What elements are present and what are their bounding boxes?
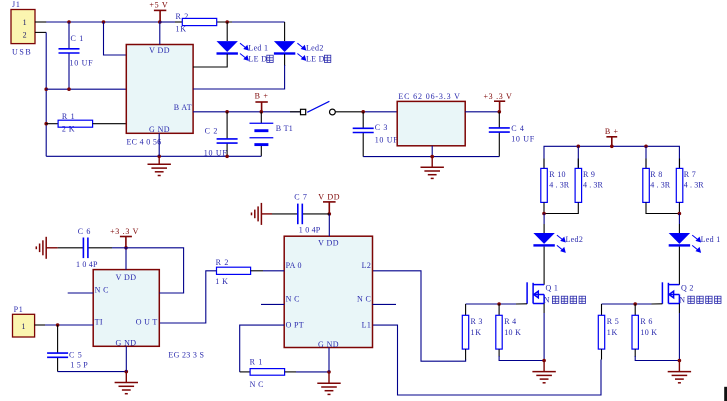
svg-text:1 0 4P: 1 0 4P bbox=[299, 225, 321, 234]
wire J1 pin2 vertical rail bbox=[45, 32, 47, 156]
junction R9 drop bbox=[577, 145, 581, 149]
wire U1 GND pin bbox=[158, 133, 160, 156]
svg-text:LE D: LE D bbox=[306, 54, 325, 63]
op IC U1 EC4056 charger bbox=[126, 45, 193, 134]
junction B+ stem bbox=[610, 145, 614, 149]
junction C2 bottom bbox=[225, 155, 229, 159]
ground left of C7 bbox=[252, 203, 262, 225]
svg-text:1 5 P: 1 5 P bbox=[70, 361, 88, 370]
capacitor C7 104P bbox=[272, 213, 298, 215]
LED Led2 top bbox=[284, 22, 286, 41]
capacitor C5 15P bbox=[57, 325, 59, 353]
battery BT1 bbox=[260, 112, 262, 124]
svg-text:C 4: C 4 bbox=[511, 124, 524, 133]
junction +5V stem bbox=[158, 20, 162, 24]
junction Q2 source node bbox=[678, 359, 682, 363]
wire R6 bottom to Q2 source node bbox=[634, 349, 636, 357]
power +3.3V above U4 bbox=[120, 237, 132, 248]
junction R10 R9 node bbox=[542, 212, 546, 216]
svg-text:J1: J1 bbox=[12, 0, 21, 9]
op IC U4 EG233S bbox=[93, 270, 159, 347]
svg-text:V DD: V DD bbox=[149, 46, 170, 55]
svg-text:R 9: R 9 bbox=[583, 170, 595, 179]
junction R8 drop bbox=[644, 145, 648, 149]
ground under U1 bbox=[158, 156, 160, 164]
page corner mark bbox=[724, 387, 727, 401]
label Q1 chinese bbox=[552, 296, 585, 303]
transistor Q2 N-channel MOSFET bbox=[662, 282, 679, 304]
svg-text:Q 1: Q 1 bbox=[546, 283, 559, 292]
svg-text:R 3: R 3 bbox=[471, 317, 483, 326]
wire Led2 to Q1 drain bbox=[543, 247, 545, 285]
regulator U2 EC6206-3.3V bbox=[397, 101, 465, 145]
svg-text:N C: N C bbox=[286, 295, 300, 304]
wire Led2 cathode to U1 bbox=[284, 54, 286, 66]
svg-text:O PT: O PT bbox=[286, 320, 304, 329]
LED Led1 right bbox=[678, 214, 680, 225]
svg-text:V DD: V DD bbox=[116, 273, 137, 282]
LED Led2 right bbox=[543, 214, 545, 225]
svg-text:N C: N C bbox=[250, 380, 264, 389]
wire R10/R9 join bbox=[543, 202, 545, 213]
capacitor C3 bbox=[362, 112, 364, 129]
wire P1 to U4 TI bbox=[45, 324, 93, 326]
junction +3.3V C4 bbox=[498, 110, 502, 114]
capacitor C4 bbox=[498, 112, 500, 128]
power +5V bbox=[154, 10, 166, 22]
wire U4 VDD pin bbox=[125, 248, 127, 270]
junction VDD C7 bbox=[328, 212, 332, 216]
ground under U4 bbox=[125, 372, 127, 383]
svg-text:R 6: R 6 bbox=[640, 317, 652, 326]
wire R4 bottom to Q1 source node bbox=[498, 349, 500, 357]
resistor R7 4.3R bbox=[676, 168, 683, 202]
svg-text:N: N bbox=[544, 296, 550, 305]
junction TI C5 bbox=[56, 323, 60, 327]
power +3.3V right bbox=[494, 101, 505, 112]
ground under Q1 bbox=[543, 361, 545, 372]
svg-text:PA 0: PA 0 bbox=[286, 261, 302, 270]
ground rail right of U2 bbox=[363, 156, 499, 158]
svg-text:+3 .3 V: +3 .3 V bbox=[483, 92, 512, 101]
svg-text:10 K: 10 K bbox=[640, 328, 657, 337]
svg-text:2 K: 2 K bbox=[62, 124, 75, 133]
junction pin2/R1 bbox=[44, 122, 48, 126]
wire switch to U2 input bbox=[335, 111, 363, 113]
wire R9 drop bbox=[577, 146, 579, 168]
svg-text:USB: USB bbox=[12, 48, 32, 57]
svg-text:+5 V: +5 V bbox=[149, 1, 168, 10]
junction B+ battery node bbox=[260, 110, 264, 114]
svg-text:+3 .3 V: +3 .3 V bbox=[110, 227, 139, 236]
resistor R8 4.3R bbox=[643, 168, 650, 202]
wire Q1 source to ground bbox=[543, 304, 545, 314]
junction LED1 anode branch bbox=[225, 20, 229, 24]
wire C5 ground rail bbox=[58, 371, 127, 373]
svg-text:10 UF: 10 UF bbox=[375, 135, 399, 144]
svg-text:R 8: R 8 bbox=[650, 170, 662, 179]
svg-text:L2: L2 bbox=[362, 261, 372, 270]
op IC U3 controller bbox=[284, 236, 372, 347]
wire +5V net from J1 pin1 across top bbox=[35, 21, 182, 23]
junction U3 GND R1 bbox=[327, 370, 331, 374]
svg-text:R 5: R 5 bbox=[607, 317, 619, 326]
svg-text:10 K: 10 K bbox=[504, 328, 521, 337]
wire R5 bottom to L1 rail bbox=[601, 349, 603, 359]
svg-text:4 . 3R: 4 . 3R bbox=[650, 180, 670, 189]
wire U4 NC stub bbox=[68, 292, 94, 294]
ground under U2 bbox=[431, 157, 433, 168]
connector P1 bbox=[13, 314, 35, 337]
svg-text:1: 1 bbox=[23, 18, 28, 27]
svg-text:O U T: O U T bbox=[136, 318, 158, 327]
wire R7/R8 join bbox=[678, 202, 680, 213]
ground rail left bbox=[46, 155, 261, 157]
wire U3 NC right stub bbox=[373, 303, 397, 305]
wire R3 bottom to L2 riser bbox=[465, 349, 467, 360]
svg-text:1 K: 1 K bbox=[215, 277, 228, 286]
wire to U1 middle-left pin bbox=[46, 88, 126, 90]
capacitor C1 bbox=[68, 22, 70, 49]
svg-text:LE D: LE D bbox=[248, 54, 267, 63]
svg-text:R 1: R 1 bbox=[250, 358, 263, 367]
resistor R9 4.3R bbox=[575, 168, 582, 202]
resistor R10 4.3R bbox=[541, 168, 548, 202]
svg-text:4 . 3R: 4 . 3R bbox=[684, 180, 704, 189]
svg-text:1 0 4P: 1 0 4P bbox=[76, 260, 98, 269]
svg-text:EC 62 06-3.3 V: EC 62 06-3.3 V bbox=[398, 92, 460, 101]
junction U2 GND bbox=[430, 155, 434, 159]
svg-text:C 1: C 1 bbox=[71, 34, 84, 43]
svg-text:Led2: Led2 bbox=[566, 235, 584, 244]
switch S1 bbox=[290, 111, 301, 113]
resistor R4 10K bbox=[498, 304, 500, 315]
svg-text:TI: TI bbox=[95, 318, 103, 327]
svg-text:B T1: B T1 bbox=[276, 124, 293, 133]
wire U3 GND pin bbox=[328, 348, 330, 372]
svg-text:C 5: C 5 bbox=[69, 351, 82, 360]
svg-text:Q 2: Q 2 bbox=[681, 283, 694, 292]
wire Q2 source to ground bbox=[678, 304, 680, 314]
wire U2 output bbox=[465, 111, 499, 113]
svg-text:V DD: V DD bbox=[318, 238, 339, 247]
label Q2 chinese bbox=[688, 296, 721, 303]
junction C3 top bbox=[361, 110, 365, 114]
junction +3.3V C6 VDD bbox=[124, 246, 128, 250]
junction C1 bottom bbox=[67, 87, 71, 91]
svg-text:1K: 1K bbox=[471, 328, 482, 337]
svg-text:EG 23 3 S: EG 23 3 S bbox=[168, 351, 204, 360]
svg-text:R 10: R 10 bbox=[549, 170, 566, 179]
ground under Q2 bbox=[678, 361, 680, 372]
svg-text:C 3: C 3 bbox=[375, 123, 388, 132]
ground under U3 bbox=[328, 372, 330, 383]
power B+ node left bbox=[255, 102, 267, 112]
wire U2 GND pin bbox=[431, 146, 433, 157]
svg-text:P1: P1 bbox=[14, 305, 24, 314]
svg-text:C 2: C 2 bbox=[205, 126, 218, 135]
svg-text:4 . 3R: 4 . 3R bbox=[583, 180, 603, 189]
svg-text:L1: L1 bbox=[362, 320, 372, 329]
resistor R5 1K bbox=[601, 304, 603, 315]
wire VDD branch to U1 pin bbox=[104, 22, 127, 55]
svg-text:C 6: C 6 bbox=[78, 227, 91, 236]
wire B+ rail to resistor bank bbox=[544, 146, 679, 168]
svg-text:R 2: R 2 bbox=[216, 258, 229, 267]
svg-text:V DD: V DD bbox=[318, 192, 340, 201]
svg-text:C 7: C 7 bbox=[294, 193, 307, 202]
svg-text:G ND: G ND bbox=[149, 125, 170, 134]
wire U3 VDD pin bbox=[328, 214, 330, 236]
transistor Q1 N-channel MOSFET bbox=[527, 282, 544, 304]
LED Led1 bbox=[226, 22, 228, 41]
junction C2 top bbox=[225, 110, 229, 114]
wire R2 left to U4 OUT riser bbox=[159, 271, 216, 323]
junction U1 GND bbox=[157, 155, 161, 159]
resistor R3 1K bbox=[465, 304, 467, 315]
wire U3 NC left stub bbox=[261, 303, 284, 305]
junction pin2/C1 wire bbox=[44, 87, 48, 91]
svg-text:N C: N C bbox=[357, 295, 371, 304]
svg-text:B AT: B AT bbox=[174, 103, 192, 112]
svg-text:Led2: Led2 bbox=[306, 43, 324, 52]
wire Q1 gate bbox=[466, 303, 516, 305]
capacitor C2 bbox=[226, 112, 228, 139]
junction Q1 source node bbox=[542, 359, 546, 363]
svg-text:Led 1: Led 1 bbox=[248, 43, 268, 52]
power B+ node right bbox=[606, 137, 617, 147]
junction R7 R8 node bbox=[678, 212, 682, 216]
junction U4 GND bbox=[125, 370, 129, 374]
svg-text:R 7: R 7 bbox=[684, 170, 696, 179]
wire R8 drop bbox=[645, 146, 647, 168]
junction R4 top bbox=[497, 302, 501, 306]
svg-text:Led 1: Led 1 bbox=[701, 235, 721, 244]
U1 VDD pin wire bbox=[159, 22, 161, 45]
wire Q2 gate bbox=[602, 303, 652, 305]
wire U4 GND pin bbox=[125, 346, 127, 371]
switch blade bbox=[307, 101, 329, 112]
connector J1 USB bbox=[11, 10, 35, 44]
junction C1 top bbox=[67, 20, 71, 24]
ground left of C6 bbox=[36, 237, 46, 259]
svg-text:B +: B + bbox=[255, 92, 269, 101]
wire VDD loop to U4 right pin bbox=[126, 248, 184, 293]
resistor R6 10K bbox=[634, 304, 636, 315]
wire U3 OPT to R1 bbox=[240, 325, 285, 372]
svg-text:R 4: R 4 bbox=[504, 317, 516, 326]
svg-text:N C: N C bbox=[95, 285, 109, 294]
wire Led1 to Q2 drain bbox=[678, 247, 680, 285]
junction VDD branch bbox=[102, 20, 106, 24]
power VDD above U3 bbox=[323, 202, 336, 214]
junction R6 top bbox=[633, 302, 637, 306]
svg-text:2: 2 bbox=[23, 30, 28, 39]
svg-text:1: 1 bbox=[21, 322, 26, 331]
svg-text:4 . 3R: 4 . 3R bbox=[549, 180, 569, 189]
wire Led1 cathode to U1 bbox=[193, 54, 227, 67]
capacitor C6 104P bbox=[58, 247, 84, 249]
svg-text:B +: B + bbox=[605, 127, 619, 136]
svg-text:10 UF: 10 UF bbox=[70, 58, 94, 67]
svg-text:N: N bbox=[679, 296, 685, 305]
svg-text:10 UF: 10 UF bbox=[511, 134, 535, 143]
wire U1 BAT to switch bbox=[193, 111, 300, 113]
svg-text:EC 4 0 56: EC 4 0 56 bbox=[127, 138, 162, 147]
svg-text:1K: 1K bbox=[607, 328, 618, 337]
